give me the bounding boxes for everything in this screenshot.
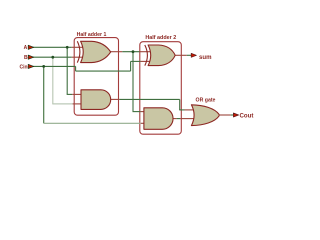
input arrow B bbox=[28, 55, 34, 59]
wire A vertical drop bbox=[66, 47, 68, 94]
wire Cin rise to XOR2 bbox=[130, 61, 132, 71]
wire s1 elbow to AND2 bbox=[133, 111, 141, 113]
wire c1 horizontal bbox=[120, 98, 180, 100]
svg-text:sum: sum bbox=[199, 54, 212, 61]
svg-text:Cin: Cin bbox=[20, 64, 28, 70]
node Cin junction bbox=[42, 65, 45, 68]
svg-text:Cout: Cout bbox=[240, 112, 254, 119]
svg-text:B: B bbox=[24, 55, 28, 61]
input arrow A bbox=[28, 45, 34, 49]
wire Cin to XOR2 input bbox=[131, 60, 141, 62]
xor gate XOR1 input arc bbox=[77, 41, 80, 62]
node s1 junction bbox=[132, 50, 135, 53]
pin stub OR input2 bbox=[180, 118, 194, 120]
wire A elbow to AND1 bbox=[67, 93, 73, 95]
wire c1 vertical drop bbox=[179, 99, 181, 110]
wire Cin step down bbox=[75, 66, 77, 71]
wire B run to AND1 pale bbox=[52, 103, 72, 105]
wire s1 vertical drop bbox=[132, 52, 134, 112]
pin stub AND1 input2 bbox=[73, 103, 83, 105]
pin stub AND1 output bbox=[111, 98, 120, 100]
wire A horizontal bbox=[33, 46, 72, 48]
pin stub XOR2 output sum wire bbox=[175, 54, 187, 56]
pin stub AND2 input1 bbox=[141, 111, 147, 113]
wire c1 elbow to OR bbox=[179, 109, 184, 111]
pin stub XOR1 output bbox=[111, 51, 123, 53]
input arrow Cin bbox=[28, 64, 34, 68]
svg-text:OR gate: OR gate bbox=[196, 97, 216, 103]
pin stub XOR1 input2 bbox=[72, 56, 84, 58]
xor gate XOR1 body bbox=[81, 41, 111, 62]
pin stub AND2 output bbox=[173, 118, 177, 120]
output arrow Cout bbox=[233, 113, 238, 117]
pin stub AND2 input2 bbox=[141, 122, 147, 124]
wire Cin run under XOR1 bbox=[76, 70, 131, 72]
svg-text:Half adder 2: Half adder 2 bbox=[145, 35, 176, 41]
svg-text:A: A bbox=[24, 45, 28, 51]
and gate AND2 bbox=[144, 108, 173, 130]
wire B horizontal bbox=[33, 56, 72, 58]
wire Cin bottom run to AND2 bbox=[44, 122, 141, 124]
output arrow sum bbox=[191, 53, 196, 57]
xor gate XOR2 input arc bbox=[145, 45, 148, 66]
node A junction bbox=[66, 46, 69, 49]
half adder 1 box bbox=[74, 38, 118, 116]
pin stub OR input1 bbox=[185, 109, 195, 111]
half adder 2 box bbox=[140, 42, 182, 135]
wire sum green bbox=[187, 54, 191, 56]
xor gate XOR2 body bbox=[148, 45, 175, 66]
pin stub XOR2 input1 bbox=[140, 51, 151, 53]
wire s1 to XOR2 bbox=[122, 51, 139, 53]
svg-text:Half adder 1: Half adder 1 bbox=[77, 32, 107, 38]
wire Cout green bbox=[231, 114, 234, 116]
node B junction bbox=[51, 56, 54, 59]
pin stub AND1 input1 bbox=[72, 93, 83, 95]
pin stub OR output Cout wire bbox=[219, 114, 230, 116]
wire Cin horizontal bbox=[33, 65, 76, 67]
wire c2 bbox=[177, 118, 181, 120]
and gate AND1 bbox=[81, 90, 111, 110]
wire B vertical drop pale bbox=[52, 57, 54, 104]
pin stub XOR2 input2 bbox=[141, 60, 151, 62]
pin stub XOR1 input1 bbox=[72, 46, 84, 48]
or gate U1 bbox=[191, 105, 219, 126]
wire Cin vertical drop bbox=[43, 66, 45, 123]
